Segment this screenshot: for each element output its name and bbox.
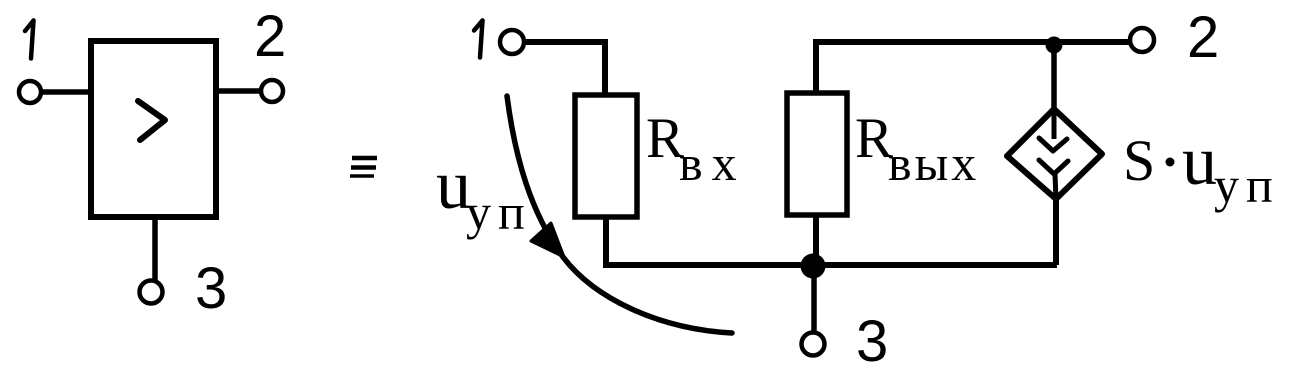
node junction dot bottom — [801, 254, 826, 279]
controlled source U1 diamond — [1007, 109, 1102, 199]
node junction dot top — [1046, 37, 1063, 54]
wire source diamond to bottom rail — [1053, 198, 1059, 265]
svg-text:уп: уп — [1214, 157, 1280, 213]
amplifier block A1 — [91, 41, 216, 217]
wire top node to source diamond — [1051, 44, 1057, 112]
svg-text:S: S — [1123, 128, 1155, 193]
wire Rvyx to bottom rail — [813, 215, 819, 263]
svg-text:2: 2 — [254, 4, 286, 69]
wire block to terminal3 — [152, 217, 158, 281]
terminal 1 (equivalent circuit) — [500, 30, 524, 54]
wire bottom rail — [603, 262, 1057, 268]
svg-text:уп: уп — [466, 184, 532, 240]
terminal 2 (equivalent circuit) — [1130, 28, 1154, 52]
terminal 3 (amplifier block) — [140, 281, 163, 304]
svg-text:вых: вых — [888, 135, 979, 191]
terminal 3 (equivalent circuit) — [802, 333, 825, 356]
wire terminal1 to block — [43, 89, 92, 95]
wire Rvx to bottom rail — [603, 217, 609, 265]
svg-text:u: u — [1182, 123, 1217, 200]
multiplication dot — [1166, 158, 1175, 167]
svg-text:3: 3 — [195, 256, 227, 321]
source chevron 2 — [1039, 160, 1068, 174]
amplifier symbol > — [138, 101, 165, 140]
wire block to terminal2 — [216, 88, 261, 94]
equivalence symbol — [350, 158, 377, 176]
wire top rail to Rvyx — [813, 42, 819, 92]
source arrow line bottom — [1055, 174, 1056, 200]
terminal 2 (amplifier block) — [261, 80, 283, 102]
svg-text:вх: вх — [679, 135, 746, 191]
terminal 1 (amplifier block) — [19, 81, 41, 103]
source chevron 1 — [1039, 138, 1067, 151]
pin 1 label (amplifier block) — [25, 21, 34, 59]
resistor Rvyx — [787, 93, 847, 215]
control voltage arrow curve — [507, 96, 732, 333]
resistor Rvx — [575, 95, 637, 217]
control voltage arrowhead — [531, 223, 564, 257]
svg-text:3: 3 — [856, 309, 888, 373]
svg-text:2: 2 — [1187, 5, 1219, 70]
wire terminal1 to Rvx — [526, 42, 605, 93]
wire node to terminal3 — [811, 266, 817, 333]
pin 1 label (equivalent circuit) — [474, 21, 483, 58]
source arrow line top — [1052, 110, 1057, 139]
wire top rail Rvyx to terminal2 — [813, 39, 1130, 45]
